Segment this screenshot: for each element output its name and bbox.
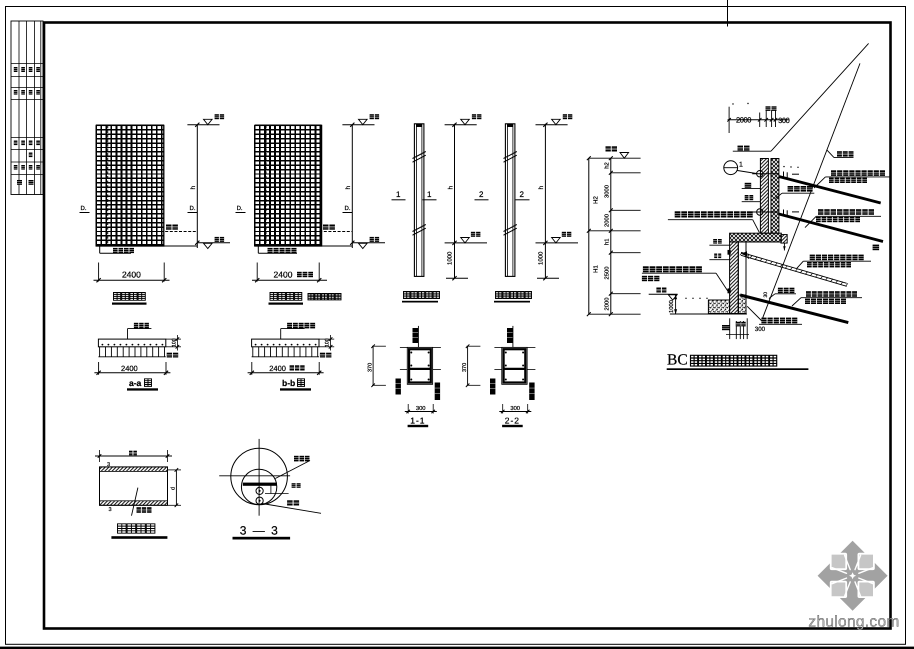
panel 2 dashed vertical line: [265, 125, 267, 246]
svg-text:1: 1: [739, 161, 743, 168]
anchor 4 bond label: [778, 288, 795, 293]
section b-b top leader: [280, 329, 282, 340]
svg-text:a-a: a-a: [129, 378, 142, 388]
ground dots right of wall top: [783, 166, 784, 167]
panel 1 lap bracket 150: [99, 246, 101, 253]
N5 shotcrete annotation lower: [643, 266, 702, 272]
pile 1 caption: [404, 292, 440, 299]
support right dimension: [168, 469, 181, 471]
section 2-2 left rebar text: [490, 379, 495, 395]
main caption chinese: [691, 355, 777, 366]
svg-text:2-2: 2-2: [505, 415, 520, 425]
section a-a dimension 2400: [98, 362, 100, 375]
detail 3-3 rod circles: [256, 487, 263, 494]
soldier pile elevation 1: [414, 124, 424, 277]
section 1-1 right rebar text: [435, 383, 440, 401]
page bottom black bar: [0, 647, 914, 649]
svg-text:3: 3: [109, 507, 112, 513]
section 1-1 column box: [407, 347, 432, 384]
anchor 2 annotation: [818, 209, 874, 215]
bottom dimension 300 cluster: [729, 318, 731, 339]
pile 2 ground level marker: [536, 242, 579, 244]
slope label on lower wall: [714, 254, 721, 259]
panel 2 lap bracket 150x150: [257, 246, 259, 253]
pile 2 top level marker: [536, 124, 568, 126]
panel 1 dashed vertical line: [107, 125, 109, 246]
anchor 2 rod: [779, 214, 883, 242]
anchor 3 annotation: [810, 255, 864, 261]
svg-text:zhulong.com: zhulong.com: [808, 614, 899, 631]
main caption underline: [667, 368, 809, 370]
section 1-1 left rebar text: [396, 379, 401, 395]
panel 2 height dimension line: [351, 125, 353, 248]
section 1-1 top leader: [417, 326, 419, 348]
svg-text:1000: 1000: [668, 300, 675, 313]
panel 1 caption: [114, 293, 146, 301]
wall chain inner line: [610, 158, 612, 314]
pile 2 break symbol upper: [504, 152, 517, 159]
anchor 1 rod: [779, 177, 881, 204]
panel 1 dimension 2400: [98, 263, 100, 282]
dotted ground line: [685, 298, 686, 299]
section a-a 100 dim: [166, 338, 181, 340]
detail 3-3 inner circle: [241, 469, 276, 504]
section b-b dimension 2400: [251, 362, 253, 375]
section b-b mesh comb: [252, 347, 254, 357]
section a-a mesh comb: [99, 347, 101, 357]
detail 3-3 bearing plate: [243, 483, 277, 486]
svg-text:h2: h2: [604, 162, 611, 168]
section 1-1 left 370 dim: [372, 346, 374, 385]
svg-text:H2: H2: [593, 196, 600, 204]
svg-text:2000: 2000: [604, 298, 611, 311]
svg-text:370: 370: [368, 363, 374, 372]
svg-text:2500: 2500: [604, 267, 611, 280]
panel 2 top level marker: [342, 124, 374, 126]
panel 2 caption: [270, 293, 302, 301]
bond label above upper wall: [738, 146, 750, 151]
pile 1 break symbol upper: [413, 152, 426, 159]
anchor 4 rod: [740, 295, 848, 323]
svg-text:h: h: [190, 186, 197, 190]
wall chain top level symbol: [606, 146, 618, 151]
svg-text:2400: 2400: [274, 270, 293, 280]
wall chain tick lines: [589, 157, 641, 159]
support leader: [132, 488, 138, 516]
svg-text:370: 370: [462, 363, 468, 372]
svg-text:1: 1: [396, 190, 401, 199]
svg-text:2000: 2000: [736, 116, 751, 125]
leader fan line B: [762, 63, 861, 321]
pile label leader upper: [745, 183, 752, 188]
detail 3-3 crosshair: [258, 439, 260, 516]
panel 1 bottom edge extension: [96, 245, 197, 247]
fan label on line B: [837, 151, 854, 156]
upper wall shotcrete strip: [760, 159, 768, 234]
svg-text:2400: 2400: [121, 364, 138, 373]
svg-text:h1: h1: [604, 238, 611, 244]
soldier pile elevation 2: [505, 124, 515, 277]
panel 2 caption parenthetical: [308, 294, 341, 300]
svg-text:1: 1: [427, 190, 432, 199]
pile 1 ground level marker: [445, 242, 487, 244]
anchor head 2 circle: [757, 209, 763, 215]
svg-text:D.: D.: [237, 205, 243, 212]
title block tiny texts: [14, 67, 18, 72]
shotcrete label leader upper: [745, 195, 754, 200]
svg-text:3: 3: [107, 462, 110, 468]
svg-text:3 — 3: 3 — 3: [240, 524, 280, 538]
section 2-2 left 370 dim: [467, 346, 469, 385]
title block strip: [11, 21, 43, 195]
anchor plate lower on lower wall: [728, 288, 731, 293]
1000 embed dim: [675, 294, 677, 314]
ground level marker lower left: [656, 288, 666, 293]
svg-text:300: 300: [416, 405, 426, 412]
svg-text:2400: 2400: [269, 364, 286, 373]
leader fan line A: [771, 43, 869, 151]
detail 3-3 bottom leader: [262, 504, 321, 514]
section 2-2 dimension 300: [502, 404, 504, 414]
support caption: [118, 524, 155, 533]
anchor 1 annotation: [831, 170, 885, 176]
panel 2 dashed horizontal line: [255, 231, 352, 233]
section 2-2 right rebar text: [529, 383, 534, 401]
svg-text:30: 30: [763, 292, 769, 298]
section a-a slab: [98, 339, 165, 347]
svg-text:2: 2: [520, 190, 525, 199]
support detail rect: [100, 467, 168, 505]
panel 2 bottom level marker: [352, 242, 385, 244]
mesh panel 1 grid: [96, 125, 164, 246]
svg-text:d: d: [171, 487, 177, 490]
anchor head 1 circle: [757, 171, 763, 177]
svg-text:D.: D.: [190, 205, 196, 212]
stray vertical line top: [727, 0, 729, 27]
svg-text:D.: D.: [345, 205, 351, 212]
watermark logo: [818, 541, 888, 611]
panel 1 top level marker: [187, 124, 219, 126]
mesh label bottom right: [761, 318, 797, 324]
section b-b 100 dim: [319, 338, 334, 340]
anchor 3 rod hatched: [741, 252, 847, 286]
step right down arrow: [783, 243, 785, 250]
section 2-2 top leader: [512, 326, 514, 348]
panel 1 dashed horizontal line: [96, 231, 197, 233]
wall chain outer line: [588, 158, 590, 314]
pile 1 break symbol lower: [413, 225, 426, 232]
upper wall grout strip: [771, 159, 779, 234]
svg-text:300: 300: [778, 116, 790, 125]
svg-text:D.: D.: [81, 205, 87, 212]
section 2-2 column box: [502, 347, 527, 384]
svg-text:2: 2: [479, 190, 484, 199]
svg-text:100: 100: [171, 338, 177, 347]
svg-text:h: h: [538, 186, 545, 190]
svg-text:100: 100: [325, 338, 331, 347]
anchor plate upper on lower wall: [728, 250, 731, 255]
svg-text:300: 300: [510, 405, 520, 412]
section 1-1 dimension 300: [407, 404, 409, 414]
section 2-2 extension lines: [494, 346, 501, 348]
detail bubble 1: [724, 161, 738, 175]
svg-text:1000: 1000: [538, 251, 545, 265]
300 anchor spacing label: [788, 186, 813, 192]
pile 2 dimension line: [544, 124, 546, 278]
footing bottom line: [670, 313, 747, 315]
lower wall stipple foot: [738, 295, 746, 314]
pile 1 dimension line: [454, 124, 456, 278]
panel 1 height dimension line: [196, 125, 198, 248]
step slab: [730, 233, 782, 242]
detail 3-3 outer circle: [231, 448, 288, 505]
support top dimension: [99, 450, 101, 462]
svg-text:h: h: [447, 186, 454, 190]
anchor 1 wall ticks: [783, 172, 785, 179]
svg-text:h: h: [345, 186, 352, 190]
svg-text:H1: H1: [593, 265, 600, 273]
lower wall face strip: [738, 242, 746, 314]
mesh panel 2 grid: [255, 125, 322, 246]
svg-text:BC: BC: [667, 352, 688, 369]
section a-a top leader: [127, 329, 129, 340]
svg-text:1-1: 1-1: [410, 415, 425, 425]
pile 2 caption: [496, 292, 532, 299]
pile mark at anchor 2 end: [873, 245, 880, 251]
svg-text:2000: 2000: [604, 214, 611, 227]
svg-text:3000: 3000: [604, 185, 611, 198]
anchor 3 start arrow: [742, 253, 744, 255]
top dimension 2000/300: [728, 119, 789, 121]
panel 2 bottom edge extension: [255, 245, 352, 247]
svg-text:30: 30: [745, 253, 751, 259]
anchor 2 wall ticks: [783, 210, 785, 217]
step right block: [781, 235, 787, 244]
pile 1 top level marker: [445, 124, 477, 126]
anchor 4 annotation: [806, 291, 857, 297]
svg-text:b-b: b-b: [282, 378, 295, 388]
N5 mesh annotation upper: [675, 211, 753, 217]
section b-b slab: [252, 339, 319, 347]
svg-text:2400: 2400: [122, 270, 141, 280]
detail 3-3 top leader: [275, 461, 310, 479]
leveling label on lower wall: [713, 239, 722, 244]
section 1-1 extension lines: [400, 346, 407, 348]
detail 3-3 small dim: [270, 485, 272, 494]
footing block: [708, 300, 729, 314]
panel 2 dimension 2400: [256, 263, 258, 282]
svg-text:300: 300: [755, 326, 766, 333]
panel 1 bottom level marker: [197, 242, 230, 244]
svg-text:1000: 1000: [447, 251, 454, 265]
pile 2 break symbol lower: [504, 225, 517, 232]
lower wall shotcrete strip: [730, 242, 739, 314]
